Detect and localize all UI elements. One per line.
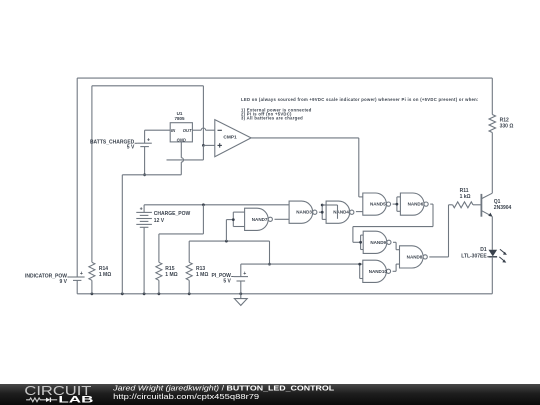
wire: NAND10 input tie bar (360, 264, 363, 278)
LED D1 LTL-307EE (461, 247, 507, 262)
wire: PI_POW row horizontal to NAND10 (241, 263, 360, 265)
svg-text:NAND3: NAND3 (296, 210, 312, 215)
wire: junction down/left to R15 (159, 205, 204, 262)
wire: NAND3 output to NAND4 ties (319, 211, 322, 213)
svg-text:CHARGE_POW: CHARGE_POW (154, 211, 191, 217)
svg-text:+: + (147, 138, 150, 144)
wire: 9V loop right vertical (top, to R12) (491, 78, 493, 114)
wire: PI_POW plus up to sense row (240, 264, 242, 277)
node: BATTS minus / U1 gnd junction (143, 173, 146, 176)
resistor R13 1 Mohm (186, 262, 208, 280)
svg-text:R12: R12 (500, 117, 509, 123)
battery V-INDICATOR_POW 9V (25, 271, 85, 294)
wire: BATTS_CHARGED minus down to gnd row (144, 147, 146, 175)
circuitlab logo wordmark (24, 383, 91, 398)
wire: NAND7 input tie bar (233, 212, 244, 226)
wire: junction down to stub row (202, 145, 204, 160)
node: bus junction R15 (158, 292, 161, 295)
gate NAND4 (326, 201, 354, 223)
svg-text:NAND4: NAND4 (333, 210, 349, 215)
wire: feed up to NAND7 inputs (226, 220, 233, 242)
transistor Q1 2N3904 (481, 193, 511, 217)
svg-text:NAND5: NAND5 (370, 202, 386, 207)
node: bus junction CHARGE_POW minus (143, 292, 146, 295)
wire: sense loop top (R14 net) (92, 85, 203, 87)
svg-text:+: + (140, 206, 143, 212)
wire: CHARGE_POW plus up and right to NAND3 (144, 205, 289, 213)
node: pi sense junction at NAND7 feed (225, 240, 228, 243)
svg-text:5 V: 5 V (223, 279, 231, 285)
footer credit line 1 (112, 383, 335, 392)
node: bus junction U1/BATTS ground (121, 292, 124, 295)
wire: Q1 emitter to LED (491, 217, 493, 250)
node: PI_POW row junction (268, 263, 271, 266)
battery V-CHARGE_POW 12V (136, 206, 190, 227)
svg-text:NAND8: NAND8 (407, 254, 423, 259)
wire: R13 bottom to bus (188, 280, 190, 294)
wire: BATTS_CHARGED plus up to U1 IN (145, 130, 171, 143)
op-amp CMP1 (215, 120, 251, 157)
wire: NAND9 output to NAND8 top input (393, 242, 400, 249)
svg-text:1 kΩ: 1 kΩ (460, 194, 471, 200)
svg-text:LTL-307EE: LTL-307EE (461, 254, 487, 260)
wire: R12 bottom to Q1 collector (491, 133, 493, 194)
node: NAND7 tie junction (232, 218, 235, 221)
svg-text:CMP1: CMP1 (223, 134, 237, 140)
resistor R12 (489, 115, 513, 133)
svg-text:LAB: LAB (58, 395, 94, 405)
svg-text:LED on (always sourced from +9: LED on (always sourced from +9VDC scale … (241, 97, 479, 102)
svg-text:330 Ω: 330 Ω (500, 124, 514, 130)
wire: sense loop right vertical to CMP1 + input (202, 86, 204, 146)
battery V-PI_POW 5V (211, 271, 248, 285)
resistor R14 1 Mohm (89, 262, 111, 280)
gate NAND3 (289, 201, 317, 223)
svg-text:GND: GND (177, 137, 186, 142)
svg-text:Q1: Q1 (494, 199, 501, 205)
annotation note text (241, 97, 479, 121)
svg-text:NAND7: NAND7 (252, 217, 268, 222)
svg-text:5 V: 5 V (127, 145, 135, 151)
wire: R15 bottom to bus (158, 280, 160, 294)
gate NAND9 (363, 231, 391, 253)
node: NAND6 tie junction (396, 203, 399, 206)
wire: NAND10 output to NAND8 bottom input (393, 264, 400, 271)
circuitlab logo LAB (58, 395, 94, 405)
wire: R14 bottom to bus (91, 280, 93, 294)
gate NAND10 (363, 260, 391, 282)
wire: NAND4 input tie bar (322, 205, 326, 219)
node: NAND10 tie junction (358, 263, 361, 266)
svg-text:NAND10: NAND10 (369, 269, 388, 274)
circuitlab logo resistor-diode row (26, 398, 57, 403)
wire: NAND5 output to NAND6 tie (393, 203, 397, 205)
wire: NAND4 output to NAND5 bottom input (356, 211, 363, 213)
svg-text:1 MΩ: 1 MΩ (165, 272, 177, 278)
wire: PI_POW minus down to bus/ground (240, 281, 242, 294)
wire: gnd row horizontal (122, 174, 181, 176)
svg-text:3) All batteries are charged: 3) All batteries are charged (241, 116, 303, 121)
node: NAND9 tie junction (359, 241, 362, 244)
node: bus junction R14 (91, 292, 94, 295)
svg-text:+: + (80, 271, 83, 277)
wire: NAND6 input tie bar (397, 197, 401, 211)
node: bus junction PI_POW ground (239, 292, 242, 295)
node: bus junction R13 (188, 292, 191, 295)
wire: R11 to Q1 base (473, 204, 481, 206)
resistor R11 1 kohm (453, 188, 473, 208)
svg-text:http://circuitlab.com/cptx455q: http://circuitlab.com/cptx455q88r79 (113, 392, 259, 401)
wire: pi sense drop to PI_POW row (269, 241, 271, 264)
ground symbol (234, 294, 247, 306)
wire: CHARGE_POW minus down to bus (143, 227, 145, 293)
svg-text:9 V: 9 V (59, 279, 67, 285)
wire: CMP1 output to NAND5 top input (251, 138, 363, 197)
regulator U1 7805 (170, 111, 192, 142)
wire: NAND8 output up to R11 (429, 205, 452, 257)
svg-text:2N3904: 2N3904 (494, 205, 512, 211)
wire: junction to CMP1 + pin (203, 144, 214, 146)
node: CMP1 plus-input junction (202, 144, 205, 147)
wire: U1 OUT to CMP1 minus input (hop over vertical) (192, 128, 214, 130)
svg-text:NAND9: NAND9 (370, 240, 386, 245)
wire: NAND6 output loop down-left to NAND9 (353, 204, 433, 242)
gate NAND7 (245, 208, 273, 230)
resistor R15 1 Mohm (156, 262, 178, 280)
svg-text:+: + (243, 271, 246, 277)
svg-text:1 MΩ: 1 MΩ (99, 272, 111, 278)
battery V-BATTS_CHARGED 5V (90, 138, 152, 151)
svg-text:7805: 7805 (174, 116, 185, 121)
svg-text:12 V: 12 V (154, 218, 165, 224)
wire: LED cathode to bottom rail (491, 257, 493, 294)
wire: ground rail (bottom bus) (77, 293, 492, 295)
wire: NAND9 input tie bar (361, 235, 364, 249)
gate NAND6 (400, 193, 428, 215)
wire: 9V indicator power loop top (77, 77, 492, 79)
footer bar (0, 384, 540, 405)
wire: U1 GND pin down with hop over stub (181, 142, 183, 175)
svg-text:OUT: OUT (183, 128, 192, 133)
footer credit line 2 (113, 392, 259, 401)
wire: gnd row down to bus (121, 175, 123, 294)
gate NAND8 (400, 246, 428, 268)
wire: 9V loop left vertical (76, 78, 78, 277)
gate NAND5 (363, 193, 391, 215)
node: NAND4 tie mid (321, 211, 324, 214)
node: charge sense junction (202, 203, 205, 206)
svg-text:1 MΩ: 1 MΩ (196, 272, 208, 278)
wire: sense loop left vertical down to R14 (91, 86, 93, 262)
node: NAND4 tie top (321, 204, 324, 207)
wire: R13 top up and right (pi sense row) (189, 241, 269, 262)
svg-text:NAND6: NAND6 (408, 202, 424, 207)
wire: overlay jumper across NAND4 (322, 205, 337, 219)
wire: horizontal stub (hops under U1 GND wire) (167, 159, 204, 161)
svg-text:D1: D1 (480, 247, 487, 253)
wire: NAND7 output to NAND3 (275, 218, 290, 220)
